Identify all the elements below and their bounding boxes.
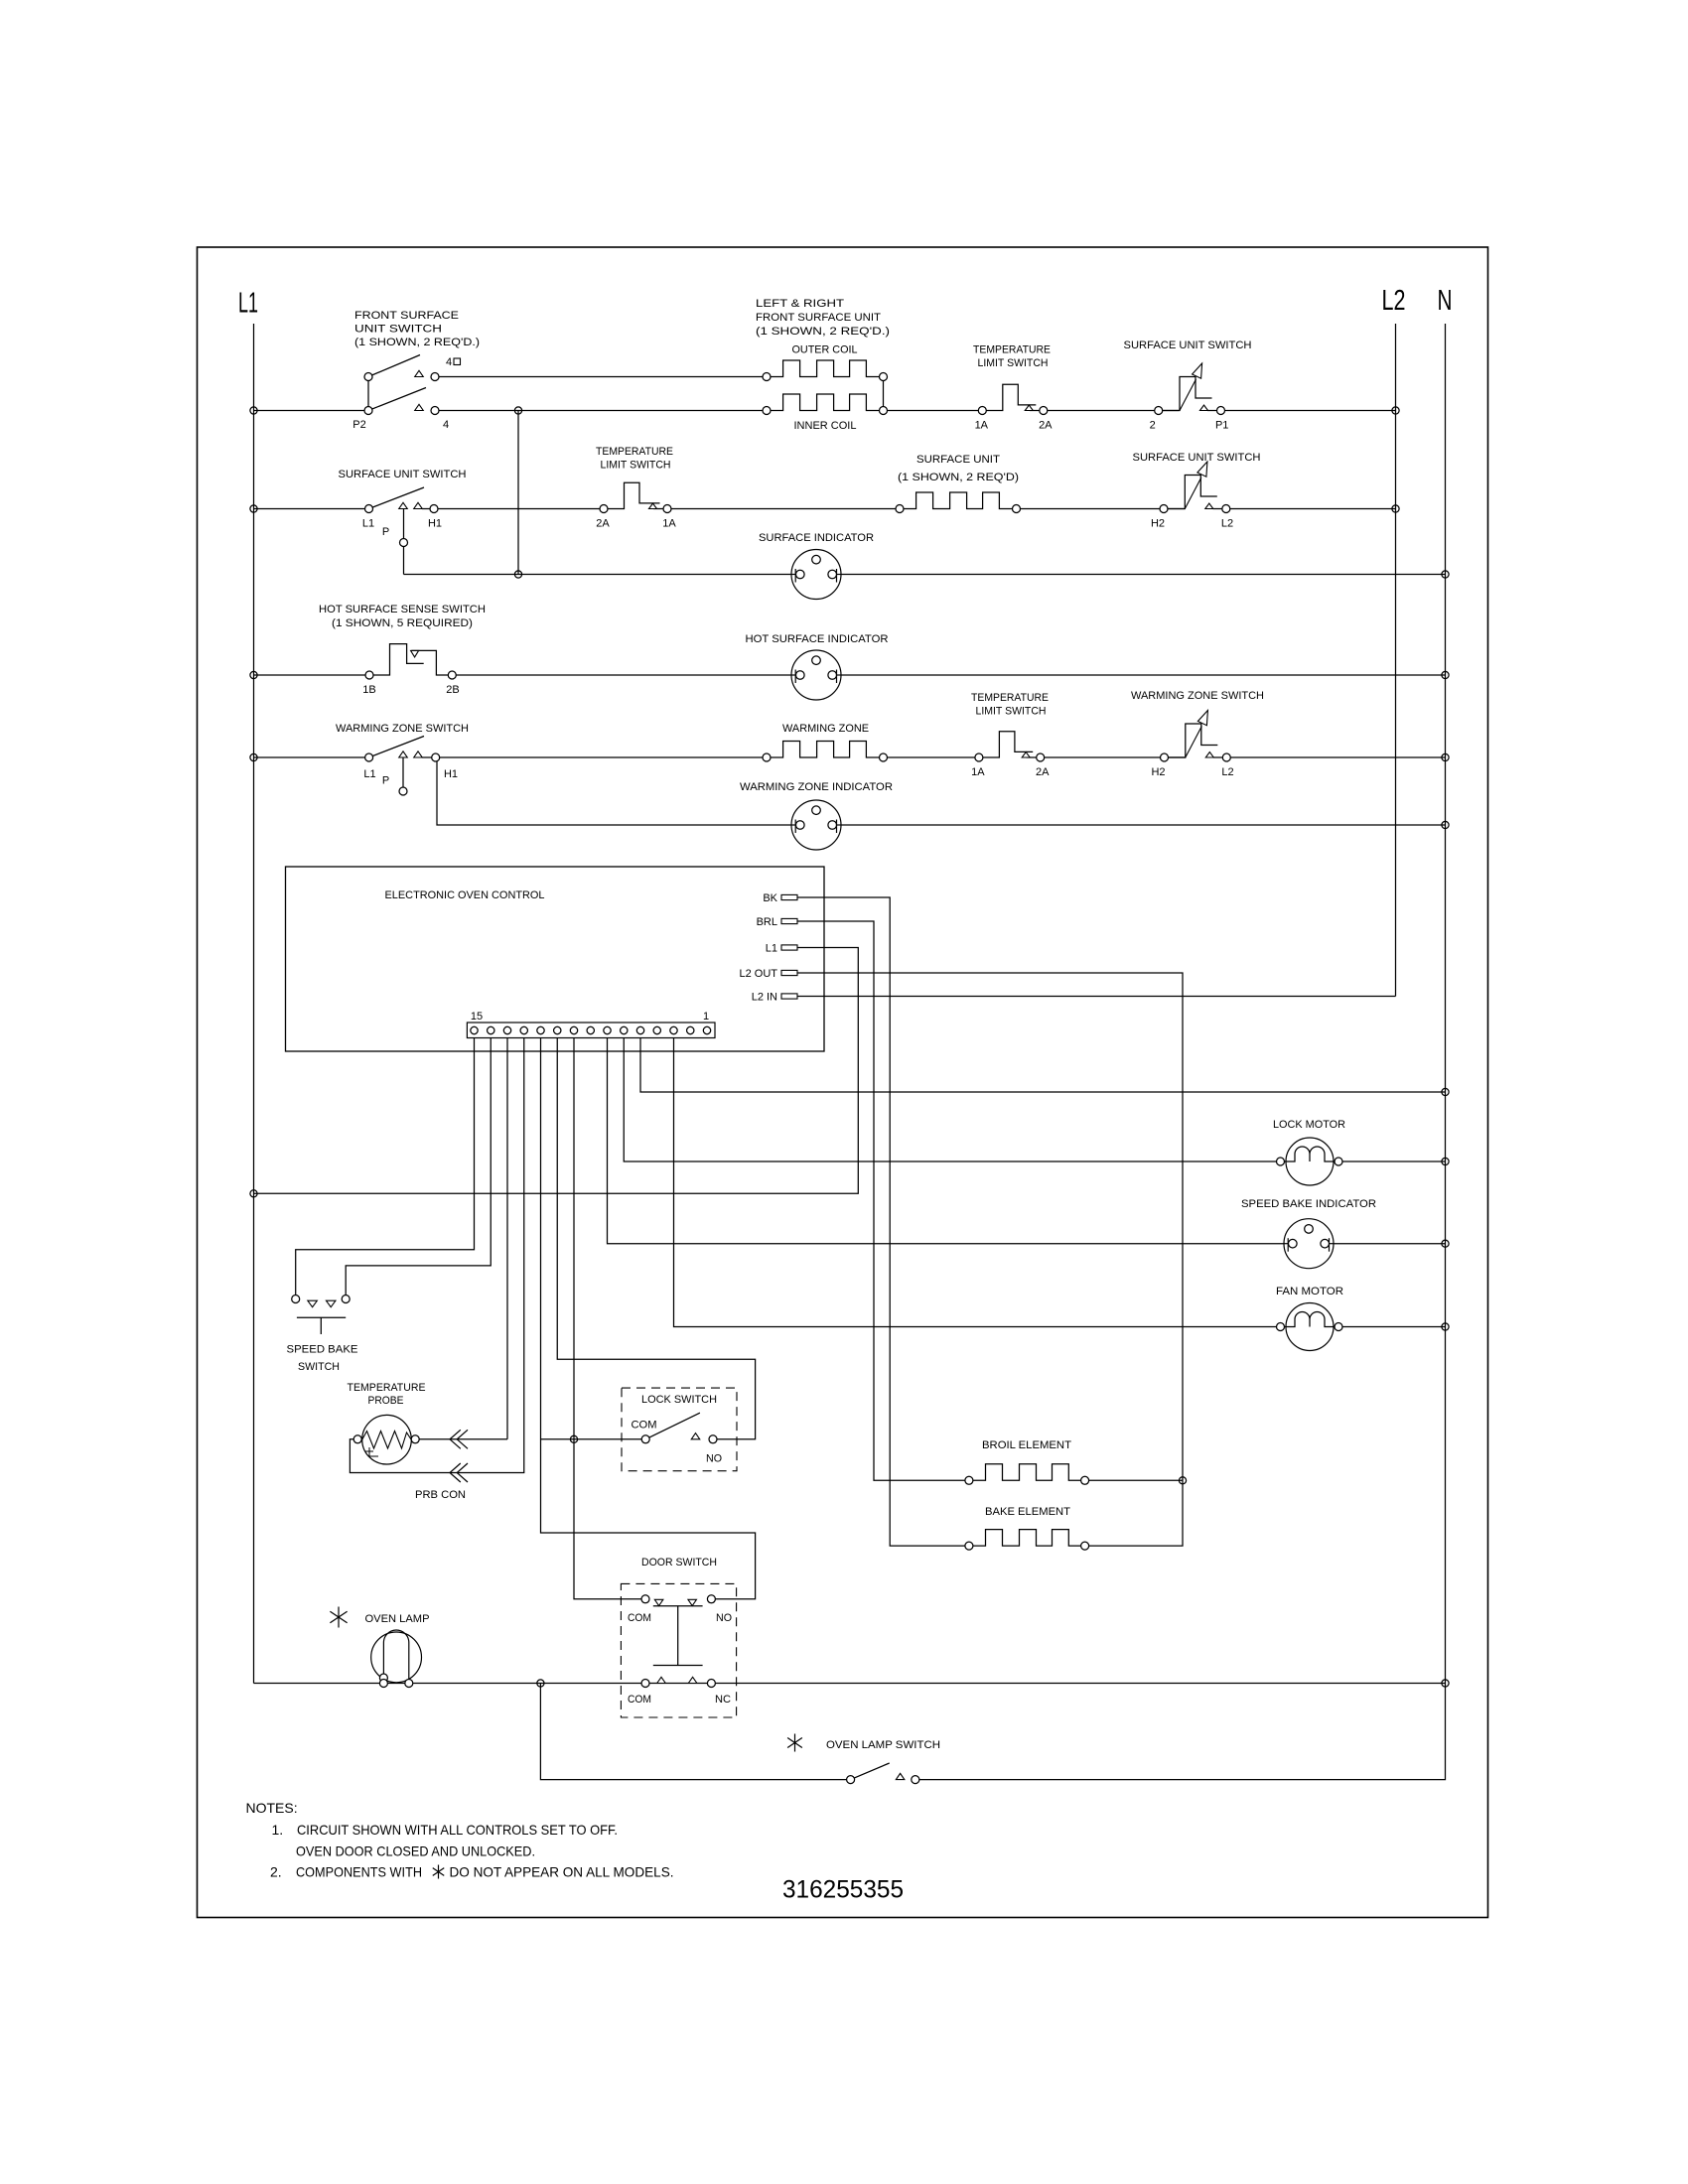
- node row2 L2 bus: [1392, 505, 1399, 512]
- connector pin 15: [471, 1026, 478, 1033]
- bus N: [1445, 324, 1447, 1684]
- lock motor right terminal: [1335, 1158, 1342, 1165]
- hot surface indicator lamp pin ticks: [795, 670, 836, 684]
- wire row2 limit to coil: [667, 508, 900, 510]
- svg-text:HOT SURFACE INDICATOR: HOT SURFACE INDICATOR: [746, 633, 889, 645]
- warming zone indicator lamp lead-in lines: [791, 824, 841, 826]
- front surface switch lower blade: [368, 388, 426, 411]
- lock switch blade: [645, 1413, 700, 1439]
- surface unit switch row1 blade: [1180, 379, 1196, 411]
- svg-text:BRL: BRL: [757, 916, 777, 928]
- wire row2 P drop: [403, 509, 405, 575]
- svg-text:LIMIT SWITCH: LIMIT SWITCH: [978, 357, 1049, 369]
- wire pin14 to speed bake switch: [346, 1038, 491, 1299]
- surface unit switch row1 contact triangle: [1200, 405, 1208, 410]
- wire warming H1 drop: [437, 757, 1446, 825]
- svg-text:SWITCH: SWITCH: [298, 1361, 340, 1373]
- oven lamp switch right contact: [912, 1776, 919, 1784]
- svg-text:CIRCUIT SHOWN WITH ALL CONTROL: CIRCUIT SHOWN WITH ALL CONTROLS SET TO O…: [297, 1822, 618, 1838]
- svg-text:H1: H1: [444, 768, 458, 780]
- door switch triangle right: [688, 1599, 697, 1605]
- wire warming coil to limit: [884, 756, 979, 758]
- wire pin6 to lock motor: [624, 1038, 1445, 1162]
- terminal stub L2 OUT: [781, 970, 797, 975]
- wire warming P drop: [402, 757, 404, 787]
- svg-text:4: 4: [446, 356, 452, 368]
- svg-text:SPEED BAKE: SPEED BAKE: [287, 1344, 358, 1356]
- temperature limit switch row1 contact triangle: [1025, 405, 1033, 410]
- resistor surface unit right terminal: [1013, 505, 1021, 513]
- front surface switch contact 4: [431, 407, 439, 415]
- svg-text:L1: L1: [363, 768, 375, 780]
- wire probe row: [415, 1438, 507, 1440]
- speed bake switch triangle right: [326, 1300, 336, 1307]
- svg-text:COMPONENTS WITH: COMPONENTS WITH: [296, 1864, 422, 1880]
- wire pin3 to fan motor: [674, 1038, 1446, 1327]
- resistor bake element left terminal: [965, 1542, 973, 1550]
- connector PRB CON lower: [450, 1463, 468, 1482]
- svg-text:NO: NO: [706, 1453, 722, 1465]
- speed bake switch actuator: [297, 1317, 346, 1334]
- warming zone switch right arrow: [1197, 711, 1207, 726]
- svg-text:2B: 2B: [446, 684, 459, 696]
- temperature limit switch row2 contact triangle: [649, 503, 657, 508]
- warming zone switch right contact triangle: [1205, 752, 1213, 757]
- speed bake indicator lamp body: [1284, 1219, 1334, 1269]
- temperature limit switch row2 terminal 2A: [600, 505, 608, 513]
- oven lamp right terminal: [405, 1680, 413, 1688]
- door switch dashed box: [621, 1583, 736, 1717]
- surface indicator lamp pin ticks: [795, 569, 836, 583]
- terminal stub BRL: [781, 918, 797, 923]
- surface unit switch row1 step contact: [1159, 377, 1212, 411]
- svg-text:NO: NO: [716, 1612, 732, 1624]
- node pin5 N bus: [1442, 1088, 1449, 1095]
- wire surface indicator row: [404, 574, 1446, 576]
- warming zone switch right step contact: [1165, 724, 1218, 757]
- hot surface indicator lamp left pin: [796, 671, 805, 680]
- surface indicator lamp right pin: [828, 570, 837, 579]
- surface unit switch row2 blade: [369, 487, 425, 509]
- wire lock switch COM row: [541, 1438, 646, 1440]
- node speed bake N bus: [1442, 1240, 1449, 1247]
- svg-text:1A: 1A: [975, 420, 989, 432]
- wire lamp switch right: [918, 1684, 1446, 1780]
- temperature limit switch row1 body: [982, 384, 1044, 410]
- fan motor body: [1286, 1303, 1334, 1351]
- svg-text:(1 SHOWN, 2 REQ'D.): (1 SHOWN, 2 REQ'D.): [354, 337, 480, 348]
- wire row1 switch to L2: [1207, 410, 1396, 412]
- resistor outer coil left terminal: [763, 373, 771, 381]
- oven lamp left terminal: [379, 1674, 387, 1682]
- surface unit switch row2 right terminal H2: [1160, 505, 1168, 513]
- temperature probe body: [362, 1415, 412, 1464]
- pin 4b square: [454, 358, 461, 365]
- svg-text:L2 OUT: L2 OUT: [739, 968, 777, 980]
- svg-text:TEMPERATURE: TEMPERATURE: [973, 344, 1051, 356]
- hot surface indicator lamp lead-in lines: [791, 674, 841, 676]
- connector pin 1: [703, 1026, 710, 1033]
- svg-text:4: 4: [443, 419, 449, 431]
- svg-text:P2: P2: [352, 419, 365, 431]
- hot surface sense switch triangle: [411, 650, 419, 657]
- wire bake to node: [1085, 1480, 1183, 1546]
- svg-text:SURFACE UNIT: SURFACE UNIT: [916, 454, 1000, 466]
- svg-text:SURFACE UNIT SWITCH: SURFACE UNIT SWITCH: [1133, 452, 1261, 464]
- resistor surface unit left terminal: [896, 505, 904, 513]
- warming zone switch contact H1: [432, 753, 440, 761]
- svg-text:H2: H2: [1151, 518, 1165, 530]
- svg-text:(1 SHOWN, 5 REQUIRED): (1 SHOWN, 5 REQUIRED): [332, 617, 473, 629]
- svg-text:LOCK SWITCH: LOCK SWITCH: [641, 1394, 717, 1406]
- wire P2 pole link: [367, 377, 369, 411]
- warming zone switch triangle P: [399, 751, 408, 757]
- wire coil right link: [883, 377, 885, 411]
- node pin9 lock COM: [570, 1435, 577, 1442]
- svg-text:L2 IN: L2 IN: [752, 992, 777, 1004]
- surface unit switch row2 pole L1: [365, 505, 373, 513]
- border frame: [198, 247, 1488, 1918]
- svg-text:P: P: [382, 775, 389, 787]
- wire pin15 to speed bake switch: [296, 1038, 475, 1299]
- wire BK to bake: [797, 897, 969, 1546]
- node warming L1 bus: [250, 753, 257, 760]
- surface unit switch row1 terminal 2: [1155, 407, 1163, 415]
- door switch bottom triangle right: [688, 1677, 697, 1683]
- svg-text:FRONT SURFACE UNIT: FRONT SURFACE UNIT: [756, 312, 881, 324]
- surface unit switch row2 triangle P: [399, 502, 408, 508]
- wire L2 IN: [797, 996, 1396, 998]
- wire row2 to limit: [422, 508, 604, 510]
- asterisk note: [433, 1865, 444, 1879]
- svg-text:(1 SHOWN, 2 REQ'D): (1 SHOWN, 2 REQ'D): [898, 472, 1019, 483]
- connector pin 4: [653, 1026, 660, 1033]
- oven lamp left terminal2: [379, 1680, 387, 1688]
- wire door bottom row: [254, 1683, 1446, 1685]
- speed bake switch left terminal: [292, 1296, 300, 1303]
- surface unit switch row1 arrow: [1193, 363, 1202, 378]
- warming zone indicator lamp top pin: [812, 806, 821, 815]
- svg-text:TEMPERATURE: TEMPERATURE: [348, 1382, 426, 1394]
- oven lamp filament: [383, 1630, 408, 1684]
- svg-text:OVEN LAMP SWITCH: OVEN LAMP SWITCH: [826, 1739, 940, 1751]
- resistor inner coil left terminal: [763, 407, 771, 415]
- svg-text:SURFACE INDICATOR: SURFACE INDICATOR: [759, 532, 874, 544]
- wire row2 switch to L2: [1213, 508, 1396, 510]
- node warming indicator N bus: [1442, 821, 1449, 828]
- svg-text:BROIL ELEMENT: BROIL ELEMENT: [982, 1439, 1071, 1451]
- resistor warming zone: [767, 742, 884, 758]
- resistor warming zone right terminal: [880, 753, 888, 761]
- connector pin 13: [503, 1026, 510, 1033]
- svg-text:SPEED BAKE INDICATOR: SPEED BAKE INDICATOR: [1241, 1198, 1376, 1210]
- svg-text:DO NOT APPEAR ON ALL MODELS.: DO NOT APPEAR ON ALL MODELS.: [450, 1864, 674, 1880]
- svg-text:15: 15: [471, 1011, 483, 1023]
- svg-text:PRB CON: PRB CON: [415, 1489, 466, 1501]
- wire row1 coil to limit: [884, 410, 983, 412]
- wire warming to coil: [422, 756, 767, 758]
- wire pin9 to door switch COM: [574, 1038, 645, 1599]
- warming zone indicator lamp left pin: [796, 821, 805, 830]
- svg-text:L2: L2: [1221, 766, 1233, 778]
- temperature limit switch row2 terminal 1A: [663, 505, 671, 513]
- svg-text:2A: 2A: [596, 518, 610, 530]
- temperature limit switch warming contact triangle: [1022, 752, 1030, 757]
- svg-text:1A: 1A: [971, 766, 985, 778]
- speed bake indicator lamp pin ticks: [1288, 1238, 1329, 1252]
- warming zone indicator lamp right pin: [828, 821, 837, 830]
- connector pin 12: [520, 1026, 527, 1033]
- resistor broil element: [969, 1464, 1085, 1481]
- svg-text:LEFT & RIGHT: LEFT & RIGHT: [756, 298, 844, 310]
- lock motor body: [1286, 1138, 1334, 1185]
- asterisk oven lamp switch: [787, 1734, 802, 1752]
- lock switch dashed box: [622, 1388, 737, 1471]
- node lamp junction: [537, 1680, 544, 1687]
- front surface switch upper blade: [368, 355, 420, 377]
- lock motor winding: [1286, 1147, 1334, 1161]
- resistor bake element right terminal: [1081, 1542, 1089, 1550]
- wire row1 junction drop: [517, 411, 519, 575]
- asterisk oven lamp: [330, 1607, 347, 1628]
- hot surface sense terminal 1B: [365, 671, 373, 679]
- svg-text:(1 SHOWN, 2 REQ'D.): (1 SHOWN, 2 REQ'D.): [756, 326, 890, 338]
- svg-text:N: N: [1438, 285, 1453, 317]
- warming zone switch triangle H1: [414, 751, 423, 757]
- temperature limit switch warming body: [979, 732, 1041, 757]
- wire BRL to broil: [797, 921, 969, 1480]
- wire pin13 to probe: [506, 1038, 508, 1439]
- svg-text:HOT SURFACE SENSE SWITCH: HOT SURFACE SENSE SWITCH: [319, 604, 486, 615]
- lock switch NO terminal: [709, 1435, 717, 1443]
- svg-text:L1: L1: [362, 518, 374, 530]
- front surface switch lower triangle: [415, 404, 424, 410]
- connector pin 11: [537, 1026, 544, 1033]
- front surface switch pole P2: [364, 407, 372, 415]
- door switch COM2 terminal: [641, 1680, 649, 1688]
- resistor warming zone left terminal: [763, 753, 771, 761]
- svg-text:P: P: [382, 526, 389, 538]
- svg-text:NOTES:: NOTES:: [246, 1800, 298, 1816]
- connector pin 10: [554, 1026, 561, 1033]
- wire pin10 to lock switch NO: [557, 1038, 755, 1439]
- connector pin 14: [488, 1026, 494, 1033]
- surface indicator lamp top pin: [812, 555, 821, 564]
- svg-text:WARMING ZONE: WARMING ZONE: [782, 723, 869, 735]
- warming zone switch right terminal L2: [1222, 753, 1230, 761]
- wire warming L1 to switch: [254, 756, 371, 758]
- svg-text:316255355: 316255355: [782, 1876, 904, 1904]
- wire L2 OUT: [797, 973, 1183, 1480]
- node row2 L1 bus: [250, 505, 257, 512]
- svg-text:TEMPERATURE: TEMPERATURE: [596, 446, 673, 458]
- pilot terminal P warming: [399, 787, 407, 795]
- warming zone switch pole L1: [365, 753, 373, 761]
- temperature limit switch row1 terminal 1A: [978, 407, 986, 415]
- hot surface sense terminal 2B: [448, 671, 456, 679]
- svg-text:WARMING ZONE SWITCH: WARMING ZONE SWITCH: [1131, 690, 1264, 702]
- oven lamp switch blade: [851, 1763, 890, 1780]
- resistor outer coil: [767, 360, 884, 377]
- warming zone indicator lamp body: [791, 800, 841, 850]
- node hot sense L1 bus: [250, 671, 257, 678]
- wire hot sense row to N: [452, 674, 1445, 676]
- node hot sense N bus: [1442, 671, 1449, 678]
- node row1 junction: [514, 407, 521, 414]
- front surface switch pole 4b upper: [364, 373, 372, 381]
- svg-text:TEMPERATURE: TEMPERATURE: [971, 692, 1049, 704]
- svg-text:INNER COIL: INNER COIL: [794, 420, 857, 432]
- svg-text:2A: 2A: [1036, 766, 1050, 778]
- terminal stub BK: [781, 894, 797, 899]
- svg-text:H1: H1: [428, 518, 442, 530]
- door switch COM terminal: [641, 1595, 649, 1603]
- svg-text:BAKE ELEMENT: BAKE ELEMENT: [985, 1506, 1070, 1518]
- terminal stub L1: [781, 945, 797, 950]
- node surface indicator junction: [514, 571, 521, 578]
- temperature limit switch row2 body: [604, 482, 667, 508]
- lock switch COM terminal: [641, 1435, 649, 1443]
- surface unit switch row2 contact H1: [430, 505, 438, 513]
- svg-text:COM: COM: [628, 1612, 651, 1624]
- door switch triangle left: [654, 1599, 663, 1605]
- wire row2 coil to switch: [1017, 508, 1186, 510]
- speed bake indicator lamp right pin: [1321, 1239, 1330, 1248]
- speed bake indicator lamp lead-in lines: [1284, 1243, 1334, 1245]
- node row1 L1 bus: [250, 407, 257, 414]
- surface unit switch row1 terminal P1: [1217, 407, 1225, 415]
- hot surface indicator lamp right pin: [828, 671, 837, 680]
- svg-text:L1: L1: [766, 943, 777, 955]
- svg-text:LIMIT SWITCH: LIMIT SWITCH: [976, 706, 1047, 718]
- wire pin7 to speed bake indicator: [608, 1038, 1446, 1244]
- svg-text:LOCK MOTOR: LOCK MOTOR: [1273, 1119, 1345, 1131]
- svg-text:L2: L2: [1221, 518, 1233, 530]
- lock motor left terminal: [1277, 1158, 1285, 1165]
- warming zone switch right terminal H2: [1161, 753, 1169, 761]
- svg-text:1A: 1A: [662, 518, 676, 530]
- connector pin 7: [604, 1026, 611, 1033]
- svg-text:OUTER COIL: OUTER COIL: [792, 344, 858, 356]
- node L1 return bus: [250, 1190, 257, 1197]
- svg-text:2: 2: [1150, 420, 1156, 432]
- svg-text:1: 1: [703, 1011, 709, 1023]
- svg-text:UNIT SWITCH: UNIT SWITCH: [354, 324, 442, 336]
- node broil L2OUT: [1179, 1477, 1186, 1484]
- resistor broil element right terminal: [1081, 1476, 1089, 1484]
- wire row1 to coil: [435, 410, 767, 412]
- node row1 L2 bus: [1392, 407, 1399, 414]
- resistor inner coil right terminal: [880, 407, 888, 415]
- svg-text:WARMING ZONE INDICATOR: WARMING ZONE INDICATOR: [740, 781, 893, 793]
- temperature limit switch warming terminal 1A: [975, 753, 983, 761]
- connector pin 9: [570, 1026, 577, 1033]
- temperature probe left terminal: [353, 1435, 361, 1443]
- node lock motor N bus: [1442, 1158, 1449, 1164]
- connector pin 8: [587, 1026, 594, 1033]
- svg-text:H2: H2: [1151, 766, 1165, 778]
- svg-text:ELECTRONIC OVEN CONTROL: ELECTRONIC OVEN CONTROL: [385, 889, 545, 901]
- oven lamp body: [371, 1632, 422, 1683]
- svg-text:WARMING ZONE SWITCH: WARMING ZONE SWITCH: [336, 723, 469, 735]
- svg-text:FRONT SURFACE: FRONT SURFACE: [354, 310, 459, 322]
- oven lamp switch left contact: [847, 1776, 855, 1784]
- connector PRB CON upper: [450, 1430, 468, 1448]
- connector pin 6: [621, 1026, 628, 1033]
- door switch NO terminal: [707, 1595, 715, 1603]
- bus L2: [1395, 324, 1397, 997]
- wire pin5 to neutral: [640, 1038, 1446, 1093]
- wire broil to node: [1085, 1479, 1183, 1481]
- temperature probe tail: [365, 1447, 378, 1456]
- fan motor right terminal: [1335, 1323, 1342, 1331]
- connector pin 2: [687, 1026, 694, 1033]
- svg-text:SURFACE UNIT SWITCH: SURFACE UNIT SWITCH: [339, 469, 467, 480]
- svg-text:FAN MOTOR: FAN MOTOR: [1276, 1286, 1343, 1297]
- pilot terminal P row2: [400, 539, 408, 547]
- bus L1: [253, 324, 255, 1684]
- surface unit switch row2 right terminal L2: [1222, 505, 1230, 513]
- surface unit switch row2 triangle H1: [414, 502, 423, 508]
- connector strip J1: [467, 1023, 715, 1038]
- speed bake switch right terminal: [342, 1296, 350, 1303]
- speed bake switch triangle left: [308, 1300, 318, 1307]
- wire lamp switch left: [540, 1684, 847, 1780]
- front surface switch contact 4 upper: [431, 373, 439, 381]
- warming zone switch blade: [369, 737, 424, 758]
- surface indicator lamp body: [791, 550, 841, 600]
- hot surface sense switch body: [369, 644, 452, 675]
- svg-text:P1: P1: [1215, 420, 1228, 432]
- node fan motor N bus: [1442, 1323, 1449, 1330]
- resistor broil element left terminal: [965, 1476, 973, 1484]
- svg-text:OVEN DOOR CLOSED AND UNLOCKED.: OVEN DOOR CLOSED AND UNLOCKED.: [296, 1843, 535, 1859]
- wire row1 L1 to P2: [254, 410, 369, 412]
- speed bake indicator lamp top pin: [1305, 1225, 1314, 1234]
- fan motor winding: [1286, 1312, 1334, 1327]
- node surface indicator N bus: [1442, 571, 1449, 578]
- temperature limit switch warming terminal 2A: [1037, 753, 1045, 761]
- svg-text:L1: L1: [238, 288, 258, 320]
- svg-text:BK: BK: [763, 892, 777, 904]
- wire warming switch to N: [1213, 756, 1446, 758]
- fan motor left terminal: [1277, 1323, 1285, 1331]
- surface unit switch row2 right blade: [1185, 478, 1201, 509]
- surface indicator lamp lead-in lines: [791, 574, 841, 576]
- connector pin 3: [670, 1026, 677, 1033]
- wire hot sense L1 to 1B: [254, 674, 370, 676]
- svg-text:1B: 1B: [362, 684, 375, 696]
- svg-text:COM: COM: [628, 1694, 651, 1706]
- svg-text:SURFACE UNIT SWITCH: SURFACE UNIT SWITCH: [1124, 340, 1252, 351]
- wire warming limit to switch: [1041, 756, 1186, 758]
- surface indicator lamp left pin: [796, 570, 805, 579]
- svg-text:PROBE: PROBE: [368, 1395, 404, 1407]
- warming zone switch right blade: [1186, 727, 1202, 758]
- warming zone indicator lamp pin ticks: [795, 820, 836, 834]
- electronic oven control box U1: [286, 867, 825, 1051]
- surface unit switch row2 right arrow: [1197, 462, 1207, 477]
- svg-text:NC: NC: [715, 1694, 731, 1706]
- wire pin12 to probe return: [350, 1038, 523, 1473]
- oven lamp switch triangle: [896, 1773, 905, 1779]
- hot surface indicator lamp top pin: [812, 656, 821, 665]
- svg-text:OVEN LAMP: OVEN LAMP: [365, 1613, 430, 1625]
- lock switch triangle: [691, 1433, 700, 1439]
- speed bake indicator lamp left pin: [1289, 1239, 1298, 1248]
- node bottom row N bus: [1442, 1680, 1449, 1687]
- hot surface indicator lamp body: [791, 650, 841, 700]
